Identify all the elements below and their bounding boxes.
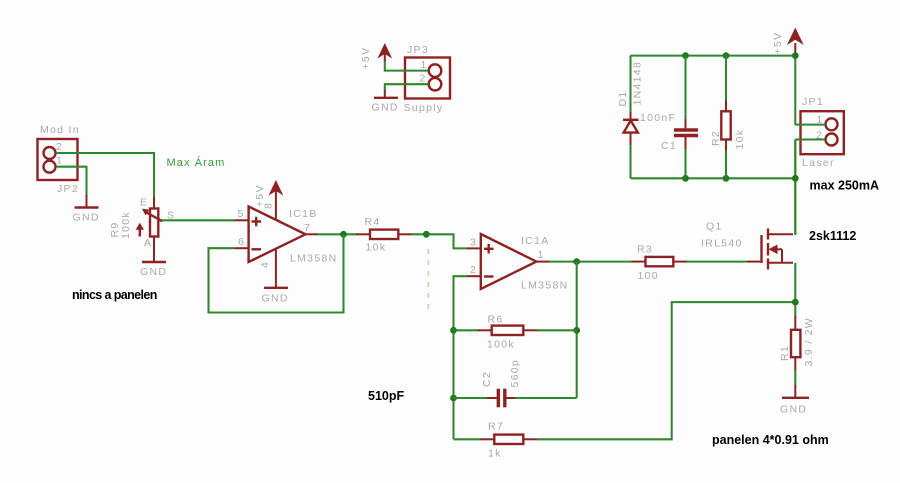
junction bottom rail R2: [723, 175, 730, 182]
resistor R4 left stub: [356, 233, 370, 235]
R9 adjust arrow: [139, 229, 141, 237]
resistor R3 left stub: [632, 261, 646, 263]
svg-text:R2: R2: [710, 130, 722, 146]
svg-text:GND: GND: [140, 266, 167, 278]
svg-text:2: 2: [420, 73, 427, 85]
R3 right stub: [673, 261, 687, 263]
svg-text:1: 1: [56, 155, 63, 167]
R4 right stub: [398, 233, 412, 235]
R3 body: [646, 257, 674, 266]
wire R1 to GND: [794, 370, 796, 386]
svg-text:1N4148: 1N4148: [632, 61, 644, 106]
R7 body: [494, 435, 523, 444]
junction top rail +5V: [792, 52, 799, 59]
IC1A minus sign: [484, 275, 494, 277]
R4 body: [370, 230, 398, 239]
wire IC1B output to R4: [317, 233, 357, 235]
faint erased dashed line: [427, 249, 429, 311]
svg-text:3: 3: [470, 237, 477, 249]
wire bottom rail: [631, 177, 796, 179]
svg-text:IRL540: IRL540: [701, 238, 743, 250]
svg-text:560p: 560p: [509, 359, 521, 388]
connector JP2 body: [38, 139, 78, 180]
IC1B pin 6 stub: [235, 247, 249, 249]
potentiometer R9 pin stub top E: [153, 197, 155, 209]
resistor R6 left stub: [478, 329, 492, 331]
wire JP3 pin1 to +5V: [385, 60, 429, 71]
wire JP2 pin1 to GND: [56, 167, 87, 196]
svg-text:Supply: Supply: [404, 102, 444, 114]
capacitor C2 left stub: [487, 397, 497, 399]
svg-text:100: 100: [638, 270, 659, 282]
svg-text:JP3: JP3: [407, 44, 429, 56]
wire JP1 pin2: [795, 138, 825, 140]
svg-text:R1: R1: [779, 345, 791, 361]
svg-text:A: A: [144, 237, 152, 249]
R1 body: [791, 330, 800, 357]
svg-text:JP1: JP1: [802, 96, 824, 108]
R9 bottom stub to ground: [153, 237, 155, 262]
IC1A output stub pin 1: [536, 261, 550, 263]
svg-text:100k: 100k: [120, 211, 132, 239]
svg-text:Q1: Q1: [706, 221, 723, 233]
wire right vertical top: [794, 56, 796, 125]
wire D1 branch bottom: [629, 145, 631, 178]
svg-text:7: 7: [304, 222, 311, 234]
svg-text:100k: 100k: [487, 339, 515, 351]
svg-text:1k: 1k: [488, 448, 502, 460]
svg-text:510pF: 510pF: [368, 389, 404, 403]
Q1 source lead: [768, 262, 793, 264]
wire R3 to Q1 gate: [687, 261, 749, 263]
IC1A pin 3 stub: [467, 247, 481, 249]
svg-text:Max Áram: Max Áram: [167, 156, 226, 169]
svg-text:IC1B: IC1B: [289, 208, 318, 220]
op-amp IC1A triangle: [481, 234, 537, 289]
wire IC1B feedback loop: [209, 234, 344, 312]
transistor Q1 gate bar: [760, 235, 762, 263]
wire R7 right to Q1 source node: [537, 302, 796, 439]
R9 wiper arrow: [146, 212, 163, 221]
JP1 pin 1 circle: [826, 118, 838, 130]
svg-text:R4: R4: [365, 216, 381, 228]
resistor R7 left stub: [481, 438, 495, 440]
svg-text:LM358N: LM358N: [290, 253, 338, 265]
resistor R1 top stub: [794, 316, 796, 330]
IC1B minus sign: [252, 248, 262, 250]
junction R6 right: [573, 327, 580, 334]
wire C2 left: [454, 397, 489, 399]
wire R2 branch bottom: [725, 150, 727, 178]
wire JP2 pin2 to R9 top: [56, 153, 154, 197]
svg-text:R6: R6: [488, 314, 504, 326]
svg-text:R3: R3: [637, 244, 653, 256]
JP3 pin 2 circle: [429, 78, 442, 91]
wire Q1 drain up: [794, 140, 796, 234]
wire R9 wiper to IC1B pin5: [162, 219, 236, 221]
op-amp IC1B triangle: [249, 207, 306, 263]
ground GND at JP3: [384, 90, 386, 97]
wire C2 right: [515, 397, 577, 399]
junction bottom rail right: [792, 175, 799, 182]
svg-text:8: 8: [263, 202, 275, 209]
svg-text:nincs a panelen: nincs a panelen: [72, 288, 157, 302]
svg-text:10k: 10k: [734, 129, 746, 150]
svg-text:GND: GND: [262, 293, 289, 305]
wire D1 branch top: [629, 56, 631, 113]
R7 right stub: [523, 438, 537, 440]
IC1B pin 4 stub: [275, 249, 277, 287]
svg-text:6: 6: [238, 236, 245, 248]
wire IC1A output to R3: [549, 261, 632, 263]
wire feedback right vertical from output: [576, 262, 578, 398]
svg-text:100nF: 100nF: [640, 112, 676, 124]
IC1A pin 2 stub: [467, 275, 481, 277]
connector JP1 body: [801, 111, 844, 154]
wire R6 left: [454, 329, 479, 331]
junction R6 left: [450, 327, 457, 334]
svg-text:1: 1: [421, 59, 428, 71]
svg-text:GND: GND: [372, 102, 399, 114]
ground GND below IC1B: [264, 287, 288, 289]
wire R4 to IC1A pin3: [412, 234, 468, 248]
C2 plates: [497, 389, 500, 408]
wire IC1A pin2 feedback vertical: [454, 276, 468, 439]
C2 right stub: [507, 397, 517, 399]
R9 body: [150, 209, 158, 237]
supply +5V arrow above IC1B: [269, 180, 284, 196]
svg-text:+5V: +5V: [772, 32, 784, 55]
svg-text:D1: D1: [617, 90, 629, 106]
svg-text:C1: C1: [661, 140, 677, 152]
R1 bottom stub: [794, 357, 796, 371]
JP3 pin 1 circle: [429, 64, 442, 77]
junction IC1A output node: [573, 258, 580, 265]
svg-text:R7: R7: [488, 421, 504, 433]
svg-text:10k: 10k: [366, 242, 387, 254]
wire top rail: [631, 55, 796, 57]
svg-text:+5V: +5V: [360, 47, 372, 70]
wire R6 right: [537, 329, 577, 331]
ground GND below R9: [142, 261, 166, 263]
svg-text:3.9 / 2W: 3.9 / 2W: [803, 317, 815, 367]
R6 right stub: [523, 329, 537, 331]
JP2 pin 1 circle: [44, 161, 56, 173]
wire right vertical middle: [794, 140, 796, 236]
junction IC1B output node: [340, 231, 347, 238]
wire JP1 pin1: [795, 124, 825, 126]
wire C1 branch top: [684, 56, 686, 120]
wire R2 branch top: [725, 56, 727, 101]
svg-text:Laser: Laser: [802, 157, 835, 169]
svg-text:GND: GND: [73, 212, 100, 224]
svg-text:LM358N: LM358N: [521, 280, 569, 292]
svg-text:max 250mA: max 250mA: [810, 179, 880, 193]
junction top rail R2: [723, 52, 730, 59]
svg-text:C2: C2: [481, 371, 493, 387]
junction top rail C1: [682, 52, 689, 59]
Q1 channel dashed: [767, 229, 769, 270]
wire C1 branch bottom: [684, 149, 686, 178]
IC1B pin 5 stub: [235, 219, 249, 221]
Q1 gate stub: [748, 261, 761, 263]
diode D1: [630, 112, 632, 120]
svg-text:1: 1: [538, 249, 545, 261]
svg-text:4: 4: [259, 261, 271, 268]
R6 body: [492, 326, 524, 335]
IC1A plus sign: [484, 244, 494, 254]
junction bottom rail C1: [682, 175, 689, 182]
Q1 drain lead: [768, 233, 793, 235]
ground GND stub below JP2: [86, 195, 88, 207]
wire Q1 source down to node: [794, 263, 796, 317]
JP2 pin 2 circle: [44, 147, 56, 159]
wire R7 left: [454, 438, 482, 440]
svg-text:2: 2: [470, 264, 477, 276]
ground GND below R1: [794, 385, 796, 397]
capacitor C1: [685, 119, 687, 128]
svg-text:JP2: JP2: [57, 183, 79, 195]
junction C2 left: [450, 395, 457, 402]
IC1B output stub pin 7: [306, 233, 319, 235]
svg-text:5: 5: [238, 208, 245, 220]
svg-text:GND: GND: [780, 404, 807, 416]
resistor R2 top stub: [725, 100, 727, 111]
supply +5V arrow at JP3: [384, 50, 386, 61]
svg-text:panelen 4*0.91 ohm: panelen 4*0.91 ohm: [712, 433, 829, 447]
svg-text:IC1A: IC1A: [521, 235, 550, 247]
connector JP3 body: [405, 58, 450, 99]
svg-text:2sk1112: 2sk1112: [809, 229, 856, 243]
JP1 pin 2 circle: [826, 134, 838, 146]
junction Q1 source / R1 / R7 node: [792, 299, 799, 306]
R2 bottom stub: [725, 140, 727, 152]
svg-text:E: E: [140, 197, 148, 209]
junction after R4: [423, 231, 430, 238]
svg-text:Mod In: Mod In: [40, 124, 80, 136]
R2 body: [721, 111, 730, 139]
supply +5V arrow top right: [794, 43, 796, 56]
wire JP3 pin2 to GND: [385, 84, 429, 91]
IC1B plus sign: [252, 217, 262, 227]
Q1 body diode arrow: [781, 249, 783, 262]
svg-text:2: 2: [56, 141, 63, 153]
IC1B pin 8 V+ stub: [275, 186, 277, 220]
